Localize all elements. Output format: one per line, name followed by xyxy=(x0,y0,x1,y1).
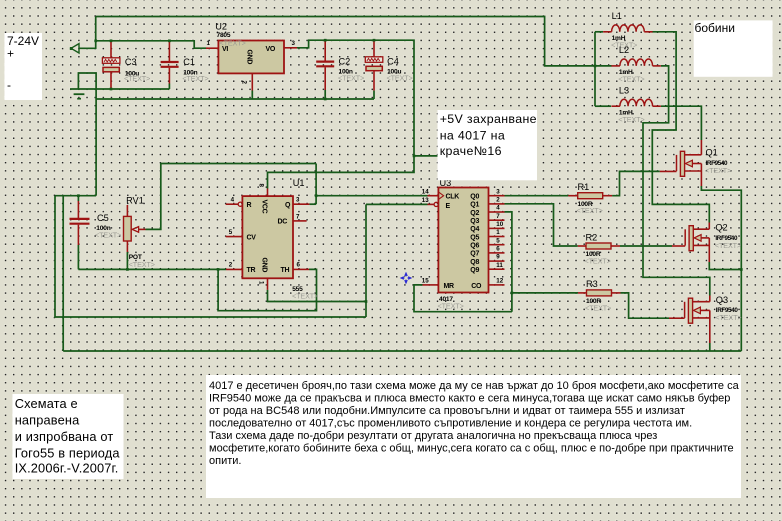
capacitor C5 xyxy=(77,196,79,201)
U1 pin 1 GND xyxy=(267,278,269,290)
svg-text:CO: CO xyxy=(471,283,482,290)
svg-text:C5: C5 xyxy=(97,213,109,223)
svg-text:Q7: Q7 xyxy=(470,251,479,258)
U3 pin 5 Q6 xyxy=(489,244,505,246)
svg-text:+5V захранване: +5V захранване xyxy=(440,112,537,126)
U1 pin 4 R xyxy=(226,203,239,205)
wire Q3 gate stub xyxy=(669,317,685,319)
wire ground jog over symbol xyxy=(78,73,96,99)
svg-text:<TEXT>: <TEXT> xyxy=(715,241,741,250)
svg-text:3: 3 xyxy=(292,40,296,47)
svg-text:4: 4 xyxy=(496,205,500,212)
wire Q1 source chain xyxy=(701,186,741,351)
junction Q2-R3 xyxy=(511,292,514,295)
RV1 wiper arrow xyxy=(132,227,138,233)
ground symbol xyxy=(74,93,85,95)
inductor L3 1mH xyxy=(620,99,653,106)
wire R2 to Q2 gate xyxy=(620,245,672,247)
svg-text:<TEXT>: <TEXT> xyxy=(387,73,413,82)
svg-text:TR: TR xyxy=(247,267,256,274)
junction E-GND net xyxy=(365,300,368,303)
svg-text:15: 15 xyxy=(422,278,429,285)
capacitor C3 electrolytic xyxy=(110,41,112,58)
wire U2 VO to +5 rail xyxy=(268,40,415,188)
svg-text:C1: C1 xyxy=(183,57,195,67)
U1 pin 2 TR xyxy=(226,268,242,270)
svg-text:<TEXT>: <TEXT> xyxy=(338,73,364,82)
wire +5 branch to 4017 pin16 note xyxy=(414,155,438,157)
wire R3 to Q3 gate xyxy=(621,293,670,318)
svg-text:<TEXT>: <TEXT> xyxy=(182,74,208,83)
svg-text:Q: Q xyxy=(285,202,291,209)
svg-text:от рода на BC548 или подобни.И: от рода на BC548 или подобни.Импулсите с… xyxy=(209,405,685,417)
resistor R2 100R xyxy=(578,245,586,247)
svg-text:Q1: Q1 xyxy=(470,202,479,209)
svg-text:MR: MR xyxy=(444,283,455,290)
U3 pin 12 CO xyxy=(489,284,505,286)
inductor L1 1mH xyxy=(612,25,645,32)
capacitor C2 xyxy=(324,40,326,61)
transistor Q1 IRF9540 xyxy=(676,155,678,171)
wire RV1 bottom lead xyxy=(126,252,128,269)
svg-text:CV: CV xyxy=(247,234,257,241)
svg-text:4: 4 xyxy=(231,197,235,204)
wire VIN arrow to riser xyxy=(79,17,96,49)
svg-text:6: 6 xyxy=(297,262,301,269)
capacitor C4 electrolytic xyxy=(373,40,375,57)
svg-text:на 4017 на: на 4017 на xyxy=(440,128,505,142)
U2 pin 2 GND xyxy=(251,73,253,90)
note coils label box xyxy=(694,20,773,76)
wire L3 left stub xyxy=(595,105,611,107)
junction TR drop xyxy=(217,268,220,271)
wire 555 GND pin rail xyxy=(268,290,367,302)
wire 4017 Q1 to R2 xyxy=(505,204,578,246)
wire ground rail y99 xyxy=(96,98,374,100)
svg-text:2: 2 xyxy=(241,81,248,85)
svg-text:краче№16: краче№16 xyxy=(440,144,502,158)
wire L3 to Q1 drain xyxy=(661,106,701,140)
U1 pin 3 Q xyxy=(293,203,309,205)
wire L2 to Q3 drain xyxy=(643,66,710,296)
U3 pin 3 Q0 xyxy=(489,195,505,197)
wire Q3 source link xyxy=(709,343,711,351)
wire TR TH node horizontal xyxy=(77,245,79,269)
note +5V supply box xyxy=(438,110,538,180)
svg-text:8: 8 xyxy=(258,184,265,188)
wire 4017 E to ground run xyxy=(366,203,428,205)
svg-text:L1: L1 xyxy=(612,11,622,21)
svg-text:C3: C3 xyxy=(125,57,137,67)
wire y196 ground link xyxy=(55,195,96,197)
junction coil bus L2 xyxy=(594,65,597,68)
svg-text:направена: направена xyxy=(15,413,80,428)
svg-text:Q1: Q1 xyxy=(706,148,718,158)
wire +V rail to C3 C1 U2 xyxy=(96,41,206,48)
wire top +V rail to coils xyxy=(96,17,612,66)
svg-text:GND: GND xyxy=(246,50,253,65)
wire CLK horizontal xyxy=(316,195,427,197)
svg-text:6: 6 xyxy=(496,245,500,252)
svg-text:Тази схема даде по-добри резул: Тази схема даде по-добри резултати от др… xyxy=(209,430,657,442)
resistor R3 100R xyxy=(578,292,587,294)
junction RV1 bottom xyxy=(126,268,129,271)
U1 pin 6 TH xyxy=(293,268,309,270)
svg-text:Q9: Q9 xyxy=(470,267,479,274)
counter U3 4017 xyxy=(438,188,488,293)
svg-text:CLK: CLK xyxy=(446,193,460,200)
svg-text:<TEXT>: <TEXT> xyxy=(292,291,318,300)
svg-text:5: 5 xyxy=(496,237,500,244)
svg-text:<TEXT>: <TEXT> xyxy=(95,231,121,240)
junction Q-CLK-wiper node xyxy=(315,194,318,197)
svg-text:последователно от 4017,със про: последователно от 4017,със променливото … xyxy=(209,418,692,430)
svg-text:Q8: Q8 xyxy=(470,259,479,266)
U1 pin 5 CV xyxy=(226,236,243,238)
wire to R3 xyxy=(512,292,578,294)
svg-text:DC: DC xyxy=(278,219,288,226)
note author box xyxy=(13,394,124,479)
wire L1 to Q2 drain xyxy=(652,32,710,223)
svg-text:<TEXT>: <TEXT> xyxy=(618,75,644,84)
wire RV1 wiper to Q node xyxy=(146,164,317,230)
svg-text:R1: R1 xyxy=(578,182,590,192)
transistor Q3 IRF9540 xyxy=(684,302,686,318)
U3 pin 6 Q7 xyxy=(489,252,505,254)
junction +V riser xyxy=(94,39,97,42)
svg-text:Q4: Q4 xyxy=(470,226,479,233)
node VIN input terminal arrow xyxy=(71,44,79,53)
U2 pin 3 VO xyxy=(284,47,297,49)
svg-text:Q2: Q2 xyxy=(715,223,727,233)
U1 pin 8 VCC xyxy=(267,189,269,197)
svg-text:7: 7 xyxy=(296,213,300,220)
svg-text:<TEXT>: <TEXT> xyxy=(220,38,246,47)
svg-text:Q5: Q5 xyxy=(470,234,479,241)
svg-text:R: R xyxy=(247,202,252,209)
svg-text:R3: R3 xyxy=(586,279,598,289)
U3 pin 11 Q9 xyxy=(489,268,505,270)
U3 pin 4 Q2 xyxy=(489,211,505,213)
junction source chain xyxy=(740,268,743,271)
svg-text:<TEXT>: <TEXT> xyxy=(585,257,611,266)
svg-text:R2: R2 xyxy=(586,232,598,242)
svg-text:<TEXT>: <TEXT> xyxy=(585,303,611,312)
svg-text:опити.: опити. xyxy=(209,455,241,467)
wire coil bus left xyxy=(594,32,596,106)
svg-text:L3: L3 xyxy=(619,85,629,95)
svg-text:U1: U1 xyxy=(293,178,305,188)
svg-text:13: 13 xyxy=(422,197,429,204)
U2 pin 1 VI xyxy=(206,47,218,49)
svg-text:Q6: Q6 xyxy=(470,243,479,250)
wire Q2 gate stub xyxy=(672,245,685,247)
svg-text:C4: C4 xyxy=(387,56,399,66)
potentiometer RV1 xyxy=(126,205,128,216)
svg-text:Q3: Q3 xyxy=(716,295,728,305)
svg-text:<TEXT>: <TEXT> xyxy=(129,260,155,269)
svg-text:VCC: VCC xyxy=(261,200,268,214)
U3 pin 2 Q1 xyxy=(489,203,505,205)
svg-text:11: 11 xyxy=(496,262,503,269)
wire R1 to Q1 gate xyxy=(612,171,660,195)
svg-text:-: - xyxy=(7,78,11,92)
U3 pin 13 E xyxy=(428,203,435,205)
wire CLK run xyxy=(315,164,317,205)
svg-text:RV1: RV1 xyxy=(126,195,144,205)
note description box xyxy=(206,375,741,498)
resistor R1 100R xyxy=(568,195,577,197)
svg-text:бобини: бобини xyxy=(695,21,735,35)
svg-text:4017 е десетичен брояч,по тази: 4017 е десетичен брояч,по тази схема мож… xyxy=(209,380,740,392)
svg-text:Q2: Q2 xyxy=(470,210,479,217)
svg-text:<TEXT>: <TEXT> xyxy=(705,166,731,175)
U3 pin 15 MR xyxy=(423,284,439,286)
svg-text:3: 3 xyxy=(296,197,300,204)
svg-text:Q0: Q0 xyxy=(470,194,479,201)
U3 pin 9 Q8 xyxy=(489,260,505,262)
svg-text:1: 1 xyxy=(207,40,211,47)
node origin marker xyxy=(401,273,412,284)
svg-text:Гого55 в периода: Гого55 в периода xyxy=(15,446,121,461)
wire ground rail C to left xyxy=(55,196,366,317)
timer U1 555 xyxy=(242,196,293,278)
svg-text:IX.2006г.-V.2007г.: IX.2006г.-V.2007г. xyxy=(15,461,119,476)
transistor Q2 IRF9540 xyxy=(684,229,686,245)
wire 4017 Q0 to R1 xyxy=(505,195,569,197)
svg-text:+: + xyxy=(7,47,14,61)
svg-text:IRF9540 може да се пракъсва и: IRF9540 може да се пракъсва и плюса вмес… xyxy=(209,393,730,405)
svg-text:2: 2 xyxy=(229,262,233,269)
voltage regulator U2 7805 xyxy=(218,41,284,74)
svg-text:1: 1 xyxy=(496,229,500,236)
U3 pin 14 CLK xyxy=(428,195,439,197)
U3 pin 10 Q4 xyxy=(489,227,505,229)
wire 555 Q to 4017 CLK xyxy=(309,203,316,205)
svg-text:14: 14 xyxy=(422,189,429,196)
svg-text:<TEXT>: <TEXT> xyxy=(124,74,150,83)
svg-text:мосфетите,когато бобините беха: мосфетите,когато бобините беха с общ, ми… xyxy=(209,443,734,455)
wire 4017 Q2 down xyxy=(505,212,512,312)
svg-text:Q3: Q3 xyxy=(470,218,479,225)
svg-text:Схемата е: Схемата е xyxy=(15,396,78,411)
svg-text:L2: L2 xyxy=(619,45,629,55)
wire common source bottom rail xyxy=(63,350,741,352)
svg-text:U2: U2 xyxy=(215,21,227,31)
svg-text:<TEXT>: <TEXT> xyxy=(715,313,741,322)
wire E vertical xyxy=(365,204,367,317)
wire Q2 source link xyxy=(709,262,741,270)
capacitor C1 xyxy=(168,41,170,61)
wire 4017 MR loop xyxy=(414,285,512,312)
wire ground left drop xyxy=(95,99,97,196)
wire bottom rail left riser xyxy=(62,196,64,351)
svg-text:1: 1 xyxy=(258,281,265,285)
inductor L2 1mH xyxy=(620,59,653,66)
wire TR wire xyxy=(78,268,226,270)
svg-text:E: E xyxy=(446,203,451,210)
svg-text:VO: VO xyxy=(266,46,276,53)
U1 pin 7 DC xyxy=(293,220,307,222)
svg-text:TH: TH xyxy=(281,267,290,274)
svg-text:<TEXT>: <TEXT> xyxy=(438,301,464,310)
svg-text:10: 10 xyxy=(496,221,503,228)
wire ground rail y89 xyxy=(70,88,169,90)
svg-text:9: 9 xyxy=(496,254,500,261)
svg-text:C2: C2 xyxy=(339,56,351,66)
svg-text:и изпробвана от: и изпробвана от xyxy=(15,429,114,444)
svg-text:2: 2 xyxy=(496,196,500,203)
svg-text:3: 3 xyxy=(496,188,500,195)
wire L1 left stub xyxy=(595,31,603,33)
wire Q1 gate stub xyxy=(660,170,677,172)
svg-text:5: 5 xyxy=(229,229,233,236)
note VIN label box xyxy=(5,33,43,100)
U3 pin 7 Q3 xyxy=(489,219,505,221)
junction +5 rail corner xyxy=(413,155,416,158)
svg-text:<TEXT>: <TEXT> xyxy=(577,206,603,215)
svg-text:7: 7 xyxy=(496,213,500,220)
U3 pin 1 Q5 xyxy=(489,236,505,238)
svg-text:<TEXT>: <TEXT> xyxy=(618,115,644,124)
svg-text:12: 12 xyxy=(496,278,503,285)
svg-text:GND: GND xyxy=(261,258,268,273)
wire TR to TH loop xyxy=(218,269,316,310)
